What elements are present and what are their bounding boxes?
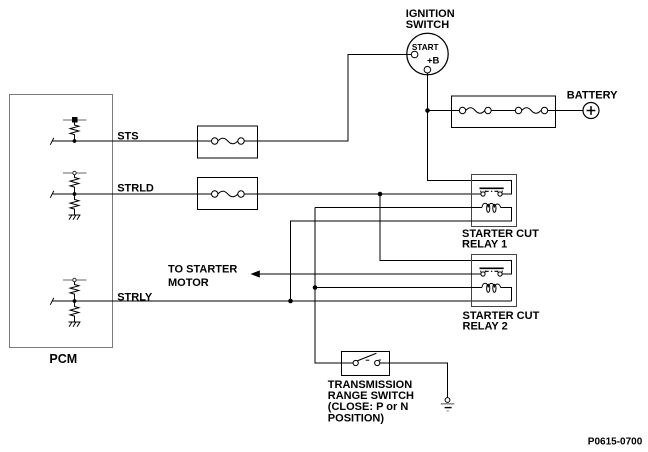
- starter cut relay 1 box: [472, 175, 517, 227]
- relay 1 contact terminal left: [481, 191, 485, 196]
- fuse F2 element: [212, 191, 245, 197]
- junction dot battery feed: [425, 108, 430, 113]
- starter cut relay 2 box: [472, 255, 517, 307]
- relay 1 contact link (dash-dot): [485, 190, 498, 192]
- relay 2 contact terminal left: [481, 271, 485, 277]
- svg-text:RELAY 1: RELAY 1: [462, 239, 507, 251]
- svg-text:TRANSMISSION: TRANSMISSION: [328, 379, 412, 391]
- pin slash STS: [50, 138, 54, 145]
- ground (PCM internal, STRLD): [69, 215, 81, 220]
- svg-text:STS: STS: [117, 130, 138, 142]
- svg-text:STRLD: STRLD: [117, 183, 154, 195]
- TR switch terminal right: [375, 360, 380, 365]
- fusible link box: [452, 96, 556, 128]
- relay 2 contact terminal right: [498, 271, 502, 277]
- svg-text:POSITION): POSITION): [328, 412, 385, 424]
- wire STRLD branch to relay 2 contact: [380, 194, 512, 274]
- PCM box: [10, 95, 113, 348]
- wire fusible link to battery: [548, 110, 583, 112]
- wire STS (fuse F1 to riser): [244, 55, 411, 142]
- PCM internal rail (STS driver): [63, 119, 87, 121]
- wire relay 1 coil return: [291, 208, 512, 302]
- svg-text:BATTERY: BATTERY: [567, 90, 618, 102]
- resistor (STRLY lower): [70, 301, 79, 322]
- rail terminal circle STRLD: [73, 171, 76, 174]
- junction dot STRLY: [73, 299, 77, 303]
- junction dot relay 2 coil feed: [313, 285, 318, 290]
- junction dot STS: [73, 139, 77, 143]
- resistor (STRLD lower): [70, 194, 79, 215]
- arrowhead to starter motor: [251, 270, 260, 277]
- relay 2 contact link (dash-dot): [485, 270, 498, 272]
- pin slash STRLD: [50, 191, 54, 198]
- wire STS (PCM to fuse F1): [52, 140, 212, 142]
- svg-text:IGNITION: IGNITION: [406, 8, 455, 20]
- svg-text:+B: +B: [427, 55, 440, 66]
- junction dot relay 1 return to STRLY: [288, 299, 293, 304]
- fuse F1 (STS) box: [198, 126, 258, 158]
- battery positive terminal: [583, 103, 599, 119]
- wire to starter motor: [259, 273, 481, 275]
- TR switch contact tick: [379, 359, 381, 361]
- svg-text:SWITCH: SWITCH: [406, 19, 449, 31]
- resistor (STRLY upper): [70, 282, 79, 301]
- svg-text:START: START: [412, 43, 439, 52]
- relay 1 contact bar: [480, 187, 504, 189]
- TR switch blade dash: [366, 359, 370, 361]
- wire STRLD (PCM to fuse F2): [52, 193, 212, 195]
- ground (PCM internal, STRLY): [69, 322, 81, 327]
- svg-text:RANGE SWITCH: RANGE SWITCH: [328, 390, 414, 402]
- fusible link element A: [459, 107, 491, 113]
- svg-text:MOTOR: MOTOR: [168, 277, 209, 289]
- wire battery feed: [428, 110, 460, 112]
- fuse F1 element: [212, 138, 245, 144]
- PCM internal rail (STRLY driver): [63, 279, 87, 281]
- wire relay 2 coil feed: [315, 287, 482, 289]
- transmission range switch box: [342, 352, 390, 376]
- svg-text:PCM: PCM: [49, 352, 77, 366]
- wire STRLD (fuse F2 to relay 1 contact): [244, 193, 481, 195]
- relay 2 coil: [482, 283, 501, 292]
- resistor (STRLD upper): [70, 175, 79, 194]
- svg-text:RELAY 2: RELAY 2: [463, 320, 508, 332]
- svg-text:(CLOSE: P or N: (CLOSE: P or N: [328, 401, 409, 413]
- PCM internal rail (STRLD driver): [63, 172, 87, 174]
- ground G1: [441, 398, 455, 411]
- svg-text:TO STARTER: TO STARTER: [168, 264, 237, 276]
- rail terminal circle STRLY: [73, 278, 76, 281]
- resistor (STS driver): [70, 123, 79, 142]
- wire +B riser to relay 1 contact feed: [428, 73, 512, 194]
- pin slash STRLY: [50, 298, 54, 305]
- relay 1 coil: [482, 203, 501, 212]
- fusible link element B: [515, 107, 547, 113]
- ignition switch SW1: [407, 33, 448, 74]
- relay 2 contact bar: [480, 267, 504, 269]
- TR switch blade: [358, 353, 377, 361]
- wire relay coil common to TR switch: [315, 208, 353, 364]
- wire TR switch to ground: [380, 363, 448, 398]
- wire relay 2 coil return: [501, 288, 512, 302]
- fuse F2 (STRLD) box: [198, 178, 258, 210]
- relay 1 contact terminal right: [498, 191, 502, 196]
- wire between fusible links: [491, 110, 515, 112]
- wire relay 1 coil feed: [315, 207, 482, 209]
- junction dot STRLD: [73, 192, 77, 196]
- PCM output stage square (STS): [72, 117, 78, 123]
- svg-text:P0615-0700: P0615-0700: [588, 436, 643, 447]
- svg-text:STRLY: STRLY: [117, 292, 153, 304]
- TR switch terminal left: [353, 360, 358, 365]
- junction dot STRLD/relay2 branch: [378, 192, 383, 197]
- wire STRLY (PCM to relay 2 coil return): [52, 300, 512, 302]
